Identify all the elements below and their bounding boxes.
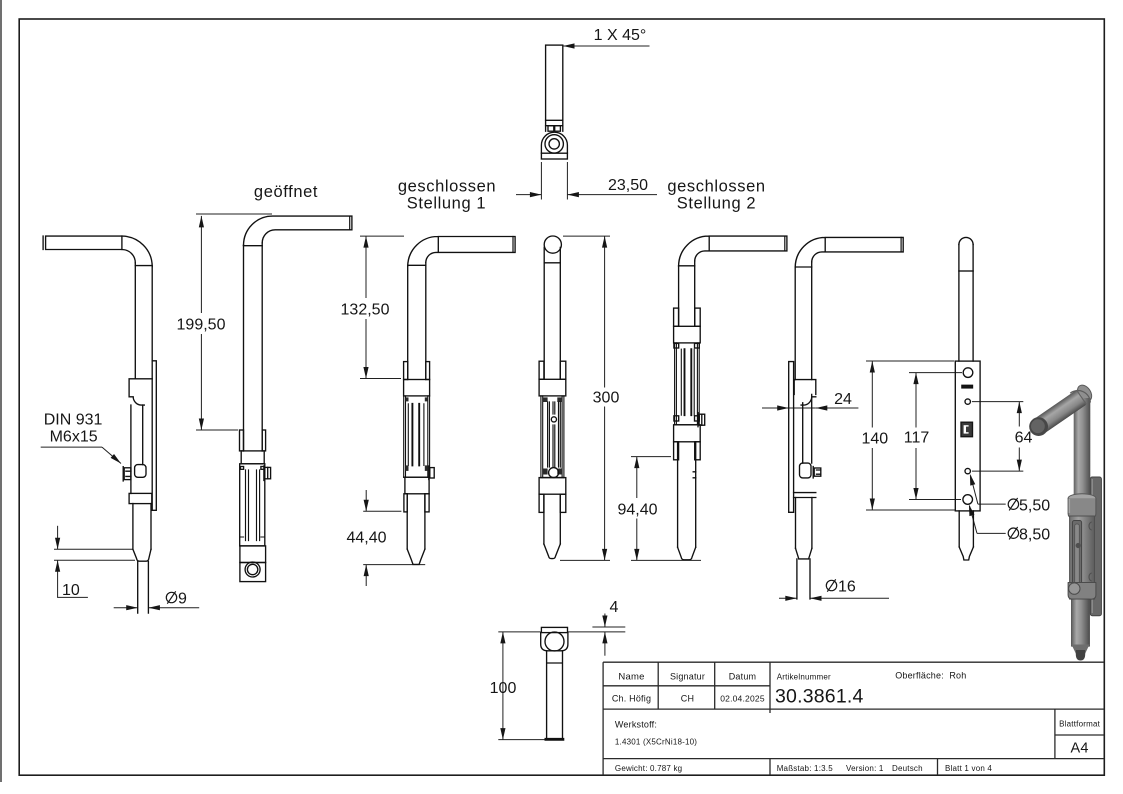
svg-text:117: 117	[904, 430, 930, 447]
svg-text:132,50: 132,50	[341, 302, 390, 319]
svg-text:Stellung 1: Stellung 1	[407, 195, 486, 213]
svg-text:Werkstoff:: Werkstoff:	[615, 720, 657, 730]
svg-text:199,50: 199,50	[177, 317, 226, 334]
svg-text:02.04.2025: 02.04.2025	[720, 694, 765, 704]
svg-text:Version: 1: Version: 1	[846, 764, 884, 773]
svg-text:44,40: 44,40	[346, 530, 386, 547]
svg-text:Stellung 2: Stellung 2	[677, 195, 756, 213]
svg-text:M6x15: M6x15	[50, 429, 98, 446]
svg-text:64: 64	[1015, 430, 1033, 447]
svg-text:Deutsch: Deutsch	[892, 764, 923, 773]
svg-text:CH: CH	[681, 694, 694, 704]
svg-text:geschlossen: geschlossen	[398, 178, 496, 196]
svg-text:100: 100	[490, 680, 517, 697]
svg-text:30.3861.4: 30.3861.4	[775, 686, 864, 708]
svg-text:8,50: 8,50	[1019, 527, 1050, 544]
svg-text:24: 24	[834, 391, 852, 408]
svg-text:Signatur: Signatur	[670, 672, 705, 682]
svg-text:Datum: Datum	[729, 672, 757, 682]
svg-text:23,50: 23,50	[608, 177, 648, 194]
svg-text:5,50: 5,50	[1019, 498, 1050, 515]
svg-text:300: 300	[593, 390, 620, 407]
svg-text:Oberfläche: Roh: Oberfläche: Roh	[895, 671, 966, 681]
svg-text:10: 10	[62, 582, 80, 599]
svg-text:1 X 45°: 1 X 45°	[594, 27, 647, 44]
svg-text:94,40: 94,40	[617, 502, 657, 519]
svg-text:9: 9	[178, 591, 187, 608]
svg-text:Blattformat: Blattformat	[1059, 720, 1100, 729]
svg-text:geöffnet: geöffnet	[254, 183, 318, 201]
svg-text:140: 140	[861, 431, 888, 448]
svg-text:16: 16	[838, 579, 856, 596]
svg-text:4: 4	[610, 599, 619, 616]
svg-text:Gewicht: 0.787 kg: Gewicht: 0.787 kg	[615, 764, 682, 773]
svg-text:Artikelnummer: Artikelnummer	[777, 673, 831, 682]
svg-text:DIN 931: DIN 931	[44, 412, 103, 429]
svg-text:Maßstab: 1:3.5: Maßstab: 1:3.5	[777, 764, 834, 773]
svg-text:A4: A4	[1071, 741, 1089, 757]
svg-text:Name: Name	[618, 672, 644, 683]
svg-text:geschlossen: geschlossen	[667, 178, 765, 196]
svg-text:Ch. Höfig: Ch. Höfig	[612, 694, 651, 704]
svg-text:Blatt 1 von 4: Blatt 1 von 4	[945, 764, 992, 773]
svg-text:1.4301 (X5CrNi18-10): 1.4301 (X5CrNi18-10)	[615, 738, 697, 747]
